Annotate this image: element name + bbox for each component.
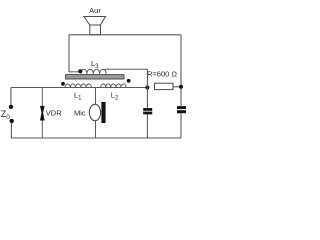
svg-text:R=600 Ω: R=600 Ω [147, 70, 177, 79]
transformer core [66, 75, 124, 79]
winding L2 [101, 84, 127, 88]
wire left vertical (top wire down to L3) [68, 35, 70, 73]
node A junction dot [145, 86, 149, 90]
terminal bottom [10, 119, 14, 123]
wire VDR to bottom [41, 120, 43, 138]
winding L1 [65, 84, 92, 88]
capacitor C2 on right branch [177, 106, 186, 113]
node B junction dot [179, 85, 183, 89]
svg-text:VDR: VDR [46, 108, 62, 117]
resistor R body [155, 83, 174, 89]
phase dot L1 [61, 82, 65, 86]
microphone Mic ellipse [89, 104, 100, 120]
wire VDR vertical upper [41, 88, 43, 107]
wire C1 to bottom [146, 114, 148, 138]
microphone bar [101, 102, 105, 123]
svg-text:Aur: Aur [89, 6, 101, 15]
terminal top [9, 105, 13, 109]
wire bottom horizontal [11, 137, 181, 139]
svg-text:Mic: Mic [74, 109, 86, 118]
wire main horizontal (left port to node A, through windings) [11, 87, 148, 89]
speaker Aur box [90, 25, 101, 35]
wire L3 right lead [105, 68, 148, 70]
phase dot L2 [127, 79, 131, 83]
VDR element (hourglass) [40, 106, 45, 121]
wire mic to bottom [95, 121, 97, 139]
phase dot L3 [78, 69, 82, 73]
wire top horizontal from speaker loop [69, 34, 181, 36]
winding L3 [81, 69, 107, 74]
wire left vertical lower (bottom terminal to bottom wire) [10, 123, 12, 138]
capacitor C1 on node A branch [143, 108, 152, 114]
wire L3 left lead [69, 71, 80, 73]
wire right vertical lower (cap C2 to bottom wire) [180, 113, 182, 138]
wire resistor right lead [173, 86, 181, 88]
wire mic tap vertical upper [95, 88, 97, 105]
speaker Aur horn [84, 17, 106, 26]
wire left vertical upper (main wire to top terminal) [10, 88, 12, 105]
wire node A vertical down [146, 69, 148, 108]
wire right vertical upper (top wire down to node B) [180, 35, 182, 106]
